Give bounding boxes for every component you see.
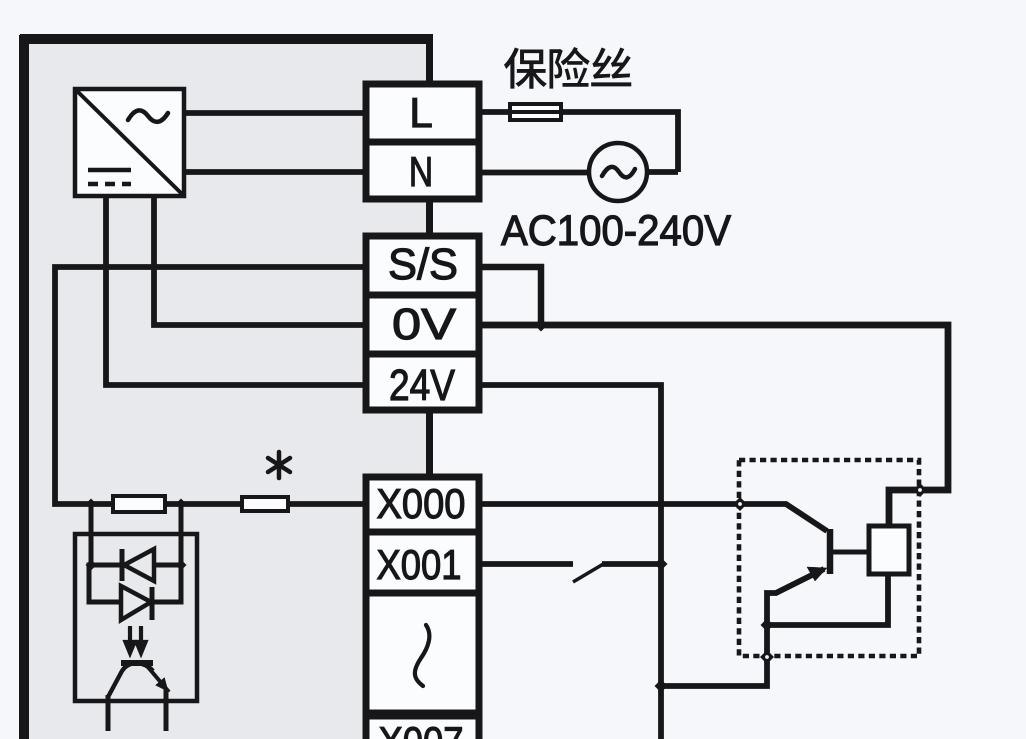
0V 24V divider [363, 351, 482, 358]
resistor R2 (with asterisk) [242, 497, 288, 511]
junction switch-24V [655, 558, 668, 571]
power supply DC solid line [88, 168, 131, 173]
power supply unit box [75, 89, 184, 196]
wire X001 to switch [482, 561, 573, 567]
power supply DC dashed line [88, 182, 131, 187]
wire N left [184, 169, 363, 175]
wire 24V right down [482, 385, 661, 739]
optocoupler box [75, 534, 197, 701]
svg-text:N: N [409, 150, 433, 196]
X001 wave divider [363, 590, 482, 597]
X000 X001 divider [363, 529, 482, 536]
power supply diagonal [77, 91, 182, 194]
dashed output box [739, 460, 919, 656]
wire 0V right [482, 325, 948, 526]
wire X000 right [482, 504, 827, 531]
switch lever [573, 563, 605, 582]
terminal block X000 X001 [366, 477, 479, 713]
svg-text:X007: X007 [379, 718, 464, 739]
wave symbol in skipped-terminals cell [415, 625, 430, 686]
wire AC source to corner [647, 169, 678, 175]
terminal block L/N [366, 84, 479, 199]
diode loop rails [89, 565, 181, 602]
wire emitter to load bottom [767, 574, 888, 625]
junction diode node B [176, 560, 187, 571]
junction emitter-load [761, 619, 774, 632]
svg-text:L: L [409, 89, 432, 136]
fuse F1 [510, 104, 561, 120]
output transistor base bar [827, 529, 834, 574]
AC source circle [589, 143, 647, 201]
emitter arrowhead [807, 567, 827, 581]
junction resistor line A [86, 499, 97, 510]
wire L right through fuse [482, 112, 678, 172]
PLC frame left bar [19, 35, 29, 739]
terminal block S/S 0V 24V [366, 236, 479, 410]
wire base to load [830, 550, 869, 555]
boundary node left [733, 497, 747, 511]
wire switch to 24V line [602, 561, 661, 567]
wire bottom link [661, 569, 824, 686]
svg-text:AC100-240V: AC100-240V [501, 207, 731, 255]
wire L left [184, 110, 363, 116]
phototransistor emitter leg [164, 689, 169, 731]
AC source sine symbol [602, 167, 635, 177]
wire X000 row to diode node B [179, 504, 184, 565]
PLC frame top bar [20, 34, 433, 44]
wire S/S right down to 0V [482, 267, 541, 325]
phototransistor Q1 [108, 663, 169, 731]
diode D2 (pointing right) [121, 586, 152, 620]
diode D1 (LED, pointing left) [122, 549, 154, 581]
L/N divider [363, 139, 482, 146]
S/S 0V divider [363, 292, 482, 299]
boundary node bottom [760, 650, 774, 664]
svg-text:0V: 0V [392, 300, 457, 349]
asterisk [268, 452, 290, 478]
terminal block X007 [366, 716, 479, 739]
svg-text:24V: 24V [389, 361, 456, 410]
connector 24V to X000 [426, 413, 433, 474]
junction resistor line B [176, 499, 187, 510]
resistor R1 [113, 496, 165, 512]
wire load top [886, 490, 892, 526]
light emission arrows [126, 626, 146, 653]
wire X000 row to diode node A [89, 504, 94, 565]
junction diode node A [86, 560, 97, 571]
connector frame to L block [426, 44, 433, 81]
label fuse (Chinese) [504, 47, 631, 89]
load block [869, 526, 909, 574]
svg-text:X000: X000 [377, 480, 466, 527]
power supply AC sine symbol [128, 110, 168, 121]
svg-text:X001: X001 [377, 541, 462, 588]
wire 0V left [154, 194, 363, 325]
PLC interior gray area [29, 44, 430, 739]
boundary node right [913, 483, 927, 497]
junction S/S-0V [535, 319, 548, 332]
wire S/S left to X000 row [55, 267, 363, 504]
junction 24V-output [655, 680, 668, 693]
connector N to S/S [426, 202, 433, 233]
phototransistor collector leg [106, 695, 111, 731]
wire 24V left [106, 194, 363, 385]
wire N right to AC source [482, 170, 589, 176]
svg-text:S/S: S/S [388, 240, 458, 289]
wire through fuse [510, 110, 561, 114]
